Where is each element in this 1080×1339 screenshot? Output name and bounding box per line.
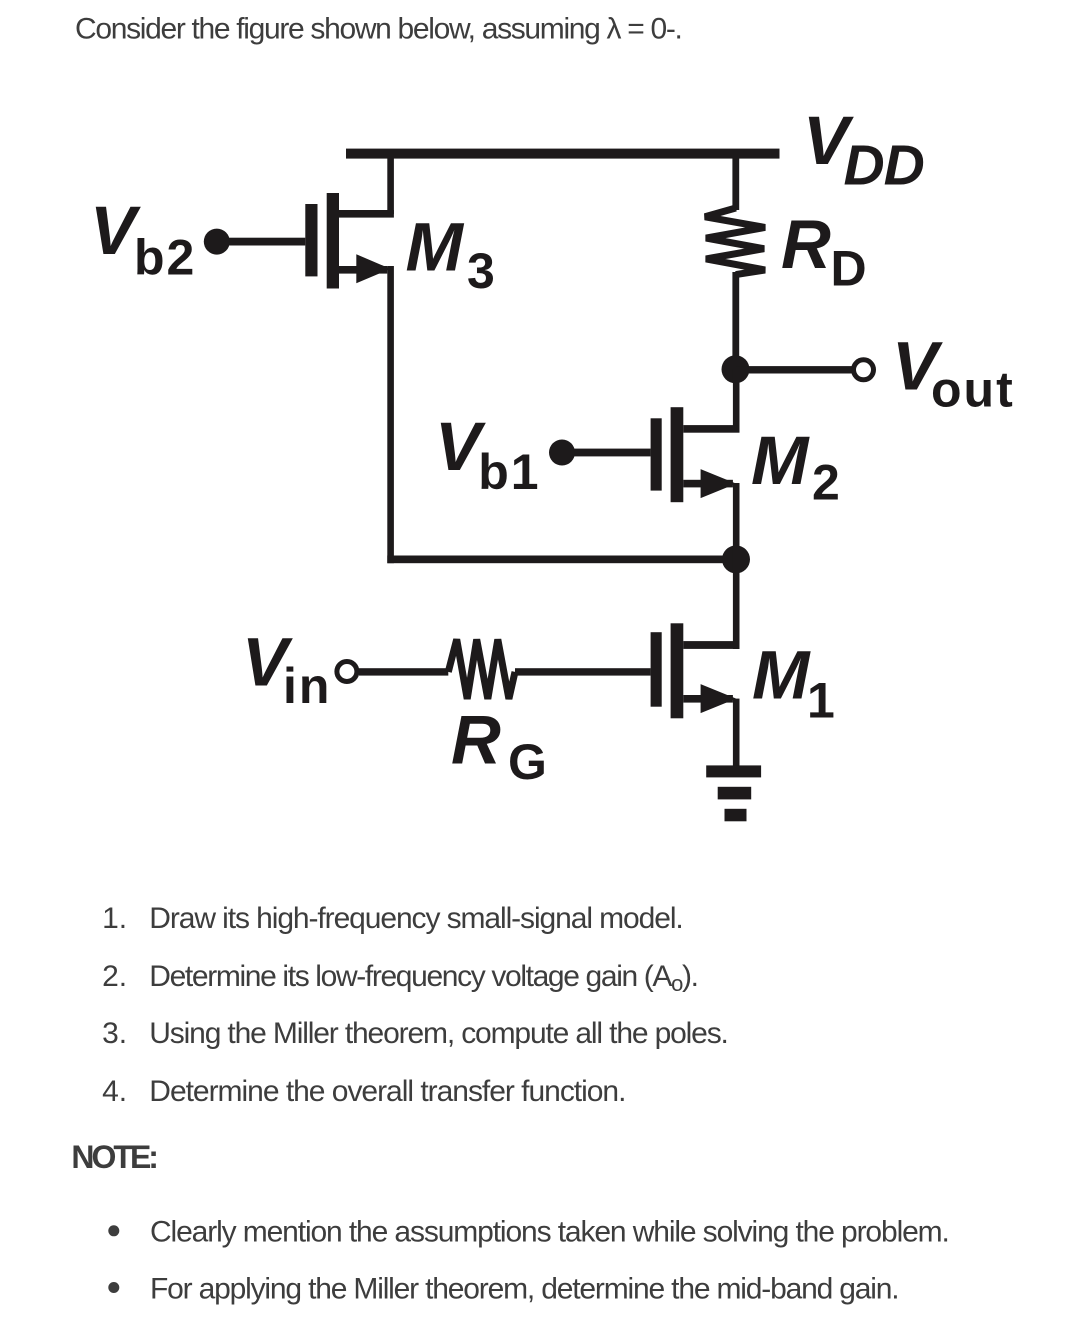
svg-text:out: out bbox=[931, 362, 1015, 418]
svg-text:1.: 1. bbox=[102, 902, 127, 935]
svg-text:4.: 4. bbox=[102, 1075, 127, 1108]
svg-text:Draw its high-frequency small-: Draw its high-frequency small-signal mod… bbox=[149, 902, 682, 935]
svg-text:2: 2 bbox=[812, 455, 842, 511]
svg-text:M: M bbox=[406, 209, 465, 286]
svg-text:DD: DD bbox=[844, 133, 924, 197]
svg-text:For applying the Miller theore: For applying the Miller theorem, determi… bbox=[150, 1272, 898, 1305]
svg-text:3.: 3. bbox=[102, 1017, 127, 1050]
svg-text:D: D bbox=[831, 240, 869, 296]
svg-text:Determine its low-frequency vo: Determine its low-frequency voltage gain… bbox=[149, 960, 697, 996]
svg-text:in: in bbox=[283, 658, 331, 714]
svg-text:NOTE:: NOTE: bbox=[71, 1139, 156, 1175]
svg-text:b1: b1 bbox=[478, 444, 540, 500]
svg-text:M: M bbox=[752, 637, 811, 714]
svg-text:1: 1 bbox=[807, 673, 837, 729]
svg-text:R: R bbox=[451, 701, 501, 778]
svg-text:3: 3 bbox=[467, 243, 497, 299]
svg-text:2.: 2. bbox=[102, 960, 127, 993]
svg-text:Consider the figure shown belo: Consider the figure shown below, assumin… bbox=[75, 13, 682, 46]
svg-text:G: G bbox=[508, 734, 549, 790]
svg-text:Clearly mention the assumption: Clearly mention the assumptions taken wh… bbox=[150, 1216, 949, 1249]
svg-text:M: M bbox=[751, 422, 810, 499]
svg-text:Determine the overall transfer: Determine the overall transfer function. bbox=[149, 1075, 625, 1108]
svg-text:b2: b2 bbox=[134, 229, 196, 285]
svg-text:Using the Miller theorem, comp: Using the Miller theorem, compute all th… bbox=[149, 1017, 727, 1050]
svg-text:R: R bbox=[781, 206, 831, 283]
